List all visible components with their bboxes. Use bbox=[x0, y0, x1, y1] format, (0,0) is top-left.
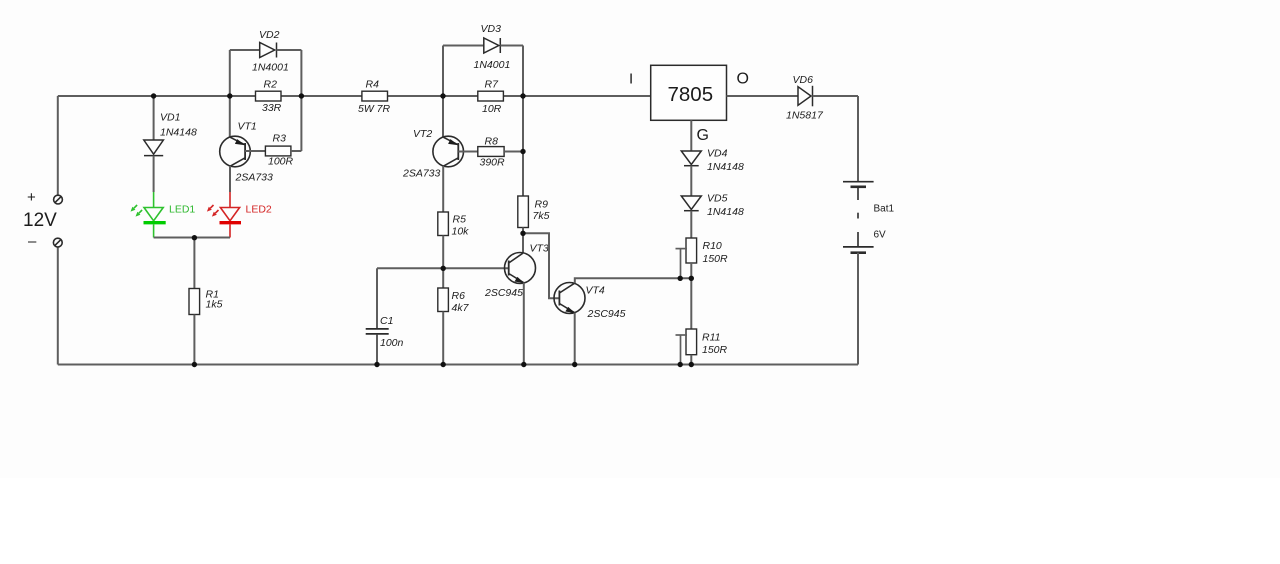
wire from plus terminal up to top rail bbox=[57, 96, 59, 195]
svg-text:G: G bbox=[697, 127, 709, 144]
svg-text:R4: R4 bbox=[366, 79, 380, 91]
node R7/VD3 rail bbox=[520, 93, 525, 98]
LED LED1 (green) bbox=[131, 192, 166, 238]
svg-text:150R: 150R bbox=[702, 344, 728, 356]
svg-text:–: – bbox=[28, 233, 37, 250]
svg-text:R7: R7 bbox=[485, 79, 500, 91]
svg-text:R9: R9 bbox=[535, 199, 549, 211]
svg-text:12V: 12V bbox=[23, 210, 57, 231]
regulator U1 7805 bbox=[651, 65, 727, 120]
diode VD4 bbox=[681, 151, 701, 196]
wire VD3 loop right vertical down to R9 bbox=[522, 46, 524, 197]
resistor R2 bbox=[256, 91, 282, 101]
svg-text:390R: 390R bbox=[480, 157, 506, 169]
svg-text:1N4001: 1N4001 bbox=[252, 62, 289, 74]
svg-text:2SC945: 2SC945 bbox=[587, 308, 626, 320]
svg-text:6V: 6V bbox=[874, 230, 887, 241]
node R6 bottom rail bbox=[441, 362, 446, 367]
svg-text:VD4: VD4 bbox=[707, 148, 728, 160]
svg-text:LED1: LED1 bbox=[169, 204, 195, 216]
node LED cathodes / R1 bbox=[192, 235, 197, 240]
transistor VT1 (2SA733 PNP) bbox=[220, 50, 251, 192]
node VT2/VD3 rail bbox=[440, 93, 445, 98]
resistor R10 bbox=[686, 238, 697, 263]
svg-text:100R: 100R bbox=[268, 156, 294, 168]
svg-text:Bat1: Bat1 bbox=[874, 204, 895, 215]
node R1 bottom rail bbox=[192, 362, 197, 367]
wire VD2 loop right vertical bbox=[300, 50, 302, 151]
svg-text:VD6: VD6 bbox=[793, 74, 814, 86]
wire VT4 collector up and right to R10/R11 junction bbox=[575, 278, 691, 283]
svg-text:R8: R8 bbox=[485, 136, 499, 148]
svg-text:R2: R2 bbox=[264, 79, 278, 91]
node VT4 emitter rail bbox=[572, 362, 577, 367]
diode VD5 bbox=[681, 196, 701, 238]
resistor R5 bbox=[438, 212, 449, 236]
svg-text:C1: C1 bbox=[380, 315, 393, 327]
transistor VT4 (2SC945 NPN) bbox=[554, 283, 585, 365]
resistor R9 bbox=[518, 196, 529, 228]
svg-text:150R: 150R bbox=[703, 253, 729, 265]
svg-text:33R: 33R bbox=[262, 102, 282, 114]
node VT1/VD2 rail bbox=[227, 93, 232, 98]
terminal + (12V positive) bbox=[54, 195, 63, 204]
diode VD3 bbox=[443, 38, 523, 53]
svg-text:1N4001: 1N4001 bbox=[474, 59, 511, 71]
diode VD1 bbox=[144, 96, 164, 192]
transistor VT2 (2SA733 PNP) bbox=[433, 46, 464, 213]
svg-text:100n: 100n bbox=[380, 337, 404, 349]
node R8 right bbox=[520, 149, 525, 154]
svg-text:VD1: VD1 bbox=[160, 112, 180, 124]
svg-text:VT4: VT4 bbox=[586, 285, 605, 297]
stub tap at R10 bbox=[676, 249, 688, 279]
wire R1 to bottom rail bbox=[193, 315, 195, 365]
svg-text:1N4148: 1N4148 bbox=[707, 206, 744, 218]
node R9 bottom / VT3 collector bbox=[520, 231, 525, 236]
svg-text:5W 7R: 5W 7R bbox=[358, 103, 391, 115]
svg-text:1k5: 1k5 bbox=[206, 299, 223, 311]
svg-text:VT1: VT1 bbox=[238, 121, 257, 133]
node R11 bottom rail bbox=[689, 362, 694, 367]
resistor R1 bbox=[189, 289, 200, 315]
wire R6 to bottom rail bbox=[442, 312, 444, 365]
wire R11 to bottom rail bbox=[690, 355, 692, 365]
resistor R7 bbox=[478, 91, 504, 101]
node VD1 top bbox=[151, 93, 156, 98]
wire junction down to R11 bbox=[690, 278, 692, 329]
svg-text:10R: 10R bbox=[482, 103, 502, 115]
svg-text:10k: 10k bbox=[452, 226, 470, 238]
node VT3 base / C1 / R5 / R6 bbox=[441, 266, 446, 271]
wire VD6 down to battery bbox=[857, 96, 859, 182]
wire battery to bottom rail bbox=[857, 253, 859, 365]
svg-text:R10: R10 bbox=[703, 240, 722, 252]
resistor R3 bbox=[245, 146, 301, 156]
diode VD2 bbox=[230, 43, 302, 58]
svg-text:VD5: VD5 bbox=[707, 193, 728, 205]
resistor R4 bbox=[362, 91, 388, 101]
wire bottom rail bbox=[58, 364, 858, 366]
wire 7805 output to VD6 bbox=[727, 95, 799, 97]
svg-text:7k5: 7k5 bbox=[533, 210, 550, 222]
wire VT3 collector branch to VT4 base bbox=[523, 233, 559, 298]
svg-text:VD3: VD3 bbox=[481, 23, 502, 35]
resistor R8 bbox=[458, 147, 523, 157]
svg-text:R3: R3 bbox=[273, 133, 287, 145]
wire C1 to VT3 base junction bbox=[377, 267, 443, 269]
svg-text:R6: R6 bbox=[452, 290, 466, 302]
node R10 bottom bbox=[689, 276, 694, 281]
svg-text:R5: R5 bbox=[453, 214, 467, 226]
wire from minus terminal down to bottom rail bbox=[57, 247, 59, 365]
svg-text:LED2: LED2 bbox=[246, 204, 272, 216]
svg-text:I: I bbox=[629, 71, 633, 88]
diode VD6 bbox=[798, 86, 858, 107]
svg-text:2SA733: 2SA733 bbox=[402, 168, 441, 180]
battery Bat1 bbox=[843, 182, 874, 253]
resistor R6 bbox=[438, 288, 449, 312]
svg-text:VT3: VT3 bbox=[530, 243, 549, 255]
svg-text:1N5817: 1N5817 bbox=[786, 110, 824, 122]
svg-text:1N4148: 1N4148 bbox=[160, 127, 197, 139]
svg-text:1N4148: 1N4148 bbox=[707, 161, 744, 173]
svg-text:VD2: VD2 bbox=[259, 29, 280, 41]
terminal - (12V negative) bbox=[53, 238, 62, 247]
wire R9 down to VT3 collector bbox=[522, 228, 524, 254]
stub tap at R11 bbox=[676, 335, 688, 365]
node C1 bottom rail bbox=[374, 362, 379, 367]
svg-text:7805: 7805 bbox=[668, 83, 714, 106]
svg-text:4k7: 4k7 bbox=[452, 302, 470, 314]
wire junction down to R1 bbox=[193, 238, 195, 289]
svg-text:VT2: VT2 bbox=[413, 128, 432, 140]
wire junction to VT3 base bbox=[443, 267, 509, 269]
transistor VT3 (2SC945 NPN) bbox=[505, 253, 536, 365]
wire R5 to junction bbox=[442, 236, 444, 289]
node stub R10 bbox=[678, 276, 683, 281]
wire top rail bbox=[58, 95, 651, 97]
resistor R11 bbox=[686, 329, 697, 355]
wire 7805 G pin down bbox=[690, 120, 692, 151]
svg-text:2SA733: 2SA733 bbox=[235, 172, 274, 184]
LED LED2 (red) bbox=[207, 192, 241, 238]
node VT3 emitter rail bbox=[521, 362, 526, 367]
svg-text:+: + bbox=[27, 189, 36, 206]
svg-text:2SC945: 2SC945 bbox=[484, 287, 523, 299]
node R2 right rail bbox=[299, 93, 304, 98]
capacitor C1 bbox=[366, 268, 389, 364]
svg-text:R11: R11 bbox=[702, 332, 720, 344]
wire R10 to junction bbox=[690, 263, 692, 278]
wire LED cathodes to R1 junction bbox=[154, 237, 230, 239]
node stub R11 rail bbox=[678, 362, 683, 367]
svg-text:O: O bbox=[737, 71, 749, 88]
junction dots bbox=[151, 93, 694, 367]
